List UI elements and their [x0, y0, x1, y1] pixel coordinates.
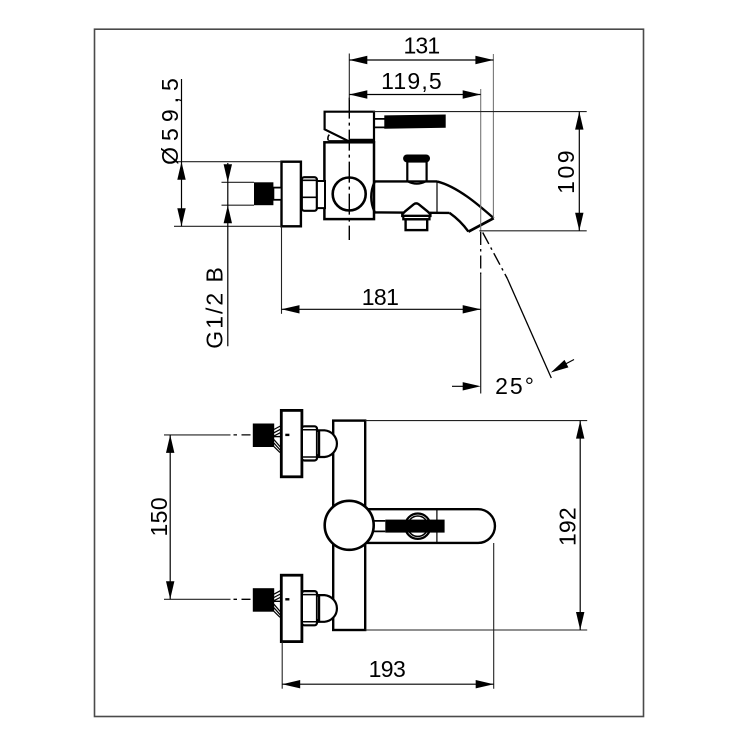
bottom wall flange: [281, 575, 302, 641]
top wall flange: [281, 410, 302, 476]
wall flange (side view): [282, 162, 301, 227]
threaded nipple (black, side view): [254, 182, 273, 205]
svg-text:119,5: 119,5: [381, 68, 443, 94]
extension line 131/119.5 left: [348, 54, 350, 101]
lever neck: [375, 119, 385, 128]
dimension 131: [349, 33, 493, 65]
svg-text:131: 131: [403, 33, 439, 59]
thread projection lines: [222, 182, 255, 205]
svg-text:109: 109: [553, 148, 579, 194]
dimension 109 (right vertical): [373, 112, 587, 231]
dimension 119,5: [349, 68, 480, 99]
diverter ring (plan): [405, 514, 430, 539]
svg-text:G1/2 B: G1/2 B: [202, 265, 228, 349]
dimension G1/2 B: [202, 163, 233, 349]
lever grip black (plan): [385, 520, 444, 533]
water stream line (25 deg): [483, 233, 552, 379]
spout (plan view, stadium): [358, 509, 495, 543]
body centerline (dash-dot): [348, 98, 350, 240]
body (plan view): [333, 421, 365, 630]
top dome: [319, 430, 337, 457]
spout curved nose: [437, 181, 494, 231]
25 degree leader arrows and text: [452, 360, 574, 400]
svg-text:193: 193: [369, 656, 406, 682]
cartridge circle (side view): [333, 178, 366, 211]
threaded nipple step: [273, 188, 281, 200]
cartridge circle (plan view): [325, 501, 374, 550]
bottom collar: [317, 596, 319, 620]
extension line 131 right: [492, 54, 494, 218]
bottom wall connection: centerline: [164, 598, 251, 600]
bottom dome: [319, 595, 337, 622]
faucet body (side view): [324, 142, 374, 219]
dimension 181: [282, 226, 481, 313]
lever grip (black): [385, 115, 445, 128]
bottom hex nut (plan): [302, 591, 317, 625]
lever cap housing: [325, 112, 374, 142]
bottom threaded nipple (black): [253, 588, 282, 617]
top hex nut (plan): [302, 426, 317, 460]
collar between nut and body: [317, 181, 325, 208]
border frame: [95, 29, 644, 716]
svg-text:Ø59,5: Ø59,5: [157, 72, 183, 165]
lever neck (plan): [374, 521, 386, 532]
top collar: [317, 431, 319, 455]
dimension 193: [282, 543, 494, 689]
dimension 150: [146, 435, 174, 599]
spout tube (side view): [371, 181, 449, 213]
hex nut (side view): [302, 177, 317, 211]
dimension diameter 59,5: [157, 72, 282, 226]
dimension 192: [365, 421, 587, 630]
top wall connection: centerline: [164, 434, 251, 436]
extension line 119.5 right / 25deg reference: [480, 89, 482, 394]
svg-text:181: 181: [362, 284, 398, 310]
svg-text:150: 150: [146, 497, 172, 537]
top threaded nipple (black): [253, 424, 282, 453]
svg-text:192: 192: [555, 507, 581, 546]
diverter knob on spout top: [403, 155, 430, 184]
hand shower outlet below spout: [402, 203, 430, 230]
svg-text:25°: 25°: [495, 373, 536, 399]
